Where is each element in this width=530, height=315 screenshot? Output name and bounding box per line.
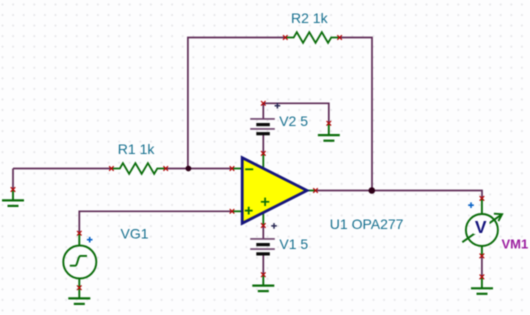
op-amp plus sign lower-left	[245, 207, 253, 215]
wire: left ground drop	[12, 169, 14, 190]
ground VM1	[471, 277, 493, 294]
source VG1	[63, 233, 96, 288]
ground V1	[252, 275, 274, 291]
VM1 V letter backing	[474, 219, 490, 234]
svg-text:U1 OPA277: U1 OPA277	[330, 216, 404, 232]
svg-text:VG1: VG1	[121, 225, 149, 241]
wire: VG1 to non-inverting input	[79, 211, 232, 233]
wire: output run to voltmeter corner	[316, 191, 482, 199]
svg-text:V: V	[475, 217, 487, 237]
wire: V1 bottom to ground	[262, 254, 264, 274]
svg-text:V1 5: V1 5	[279, 236, 308, 252]
wire: R2 to output vertical	[339, 38, 372, 191]
wire: V2 plus to ground	[263, 103, 329, 123]
resistor R1	[111, 163, 165, 174]
VM1 plus	[468, 202, 474, 208]
op-amp U1 pin stubs	[232, 153, 317, 226]
resistor R2	[285, 32, 339, 43]
svg-text:R1 1k: R1 1k	[118, 141, 156, 157]
junction node at R1/feedback	[186, 166, 192, 172]
VG1 plus	[87, 237, 93, 243]
voltmeter VM1	[462, 198, 502, 256]
ground VG1	[68, 288, 90, 304]
op-amp minus sign	[245, 168, 253, 170]
svg-text:R2 1k: R2 1k	[291, 10, 329, 26]
op-amp U1 body	[242, 158, 307, 224]
wire: feedback loop up and across to R2	[188, 38, 286, 169]
wire: VM1 bottom to ground	[481, 256, 483, 277]
wire: opamp V- pin to V1 top	[262, 226, 264, 240]
ground left	[2, 190, 24, 206]
junction node at output/feedback	[369, 187, 376, 194]
pin marks (red x)	[11, 35, 485, 290]
wire: V2 bottom to opamp V+ pin	[262, 134, 264, 154]
ground V2	[318, 123, 340, 140]
wire: left input wire from ground to R1	[13, 168, 112, 170]
wire: R1 to inverting input	[166, 168, 233, 170]
svg-text:V2 5: V2 5	[279, 113, 308, 129]
battery V2	[250, 103, 280, 134]
battery V1	[250, 223, 277, 254]
op-amp plus sign center	[261, 198, 269, 206]
svg-text:VM1: VM1	[502, 237, 529, 252]
